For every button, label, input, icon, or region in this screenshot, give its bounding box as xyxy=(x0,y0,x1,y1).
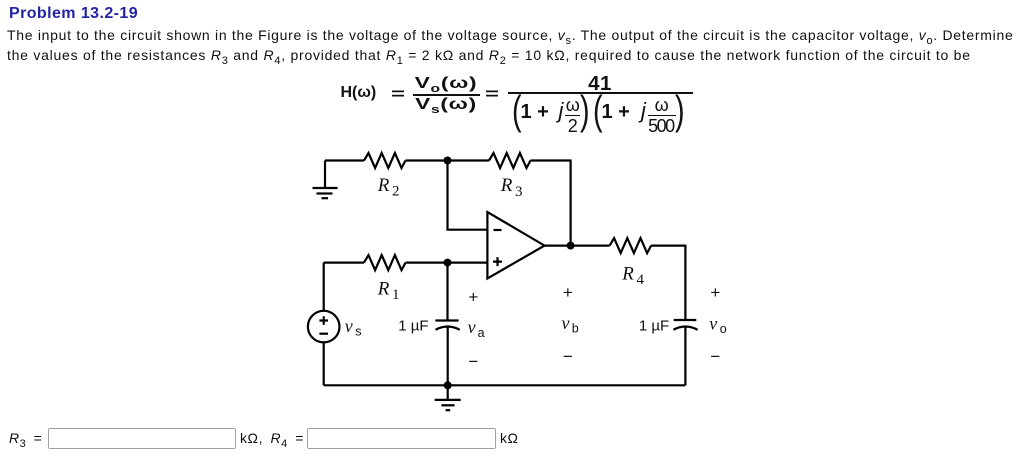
svg-text:−: − xyxy=(563,347,573,366)
vo minus xyxy=(710,347,720,366)
svg-text:R: R xyxy=(377,278,390,299)
svg-text:s: s xyxy=(355,325,361,339)
svg-text:1: 1 xyxy=(392,287,400,303)
wire vs to R1 xyxy=(324,262,364,264)
svg-text:1 µF: 1 µF xyxy=(398,317,428,334)
voltage source vs xyxy=(308,311,340,343)
C2 value label xyxy=(639,317,669,334)
svg-text:v: v xyxy=(468,317,476,337)
vb label xyxy=(562,313,579,336)
svg-text:1 µF: 1 µF xyxy=(639,317,669,334)
svg-text:+: + xyxy=(563,283,573,302)
op-amp minus sign xyxy=(494,229,502,231)
vs label xyxy=(345,316,362,339)
wire R3 to corner xyxy=(531,159,571,161)
heading xyxy=(9,6,138,22)
node A (junction dot) xyxy=(444,157,452,165)
vo plus xyxy=(710,283,720,302)
wire R2 to R3 xyxy=(406,159,490,161)
op-amp U1 xyxy=(487,212,544,279)
vb plus xyxy=(563,283,573,302)
vo label xyxy=(709,313,727,336)
capacitor C1 (1 uF, va) xyxy=(435,319,458,321)
wire capacitor to rail xyxy=(447,327,449,386)
svg-text:o: o xyxy=(720,322,727,336)
equation H(w) = Vo/Vs = 41/((1+jw/2)(1+jw/500)) xyxy=(0,0,1024,1)
svg-text:−: − xyxy=(710,347,720,366)
wire down to capacitor C2 xyxy=(684,245,686,320)
bottom rail wire xyxy=(324,384,686,386)
wire noninverting input xyxy=(448,262,488,264)
svg-text:4: 4 xyxy=(637,272,645,288)
wire R1 to node B xyxy=(406,262,448,264)
C1 value label xyxy=(398,317,428,334)
svg-text:b: b xyxy=(572,322,579,336)
node C (junction dot) xyxy=(444,381,452,389)
resistor R3 xyxy=(489,153,531,168)
svg-text:3: 3 xyxy=(515,184,523,200)
wire corner down to op-amp output xyxy=(569,160,571,246)
fraction Vo(w)/Vs(w) xyxy=(396,76,495,92)
answer box R4 xyxy=(307,428,496,450)
node D (junction dot) xyxy=(567,242,575,250)
node B (junction dot) xyxy=(444,259,452,267)
resistor R2 xyxy=(364,153,406,168)
svg-text:v: v xyxy=(562,313,570,333)
wire node A down to inverting input xyxy=(448,161,488,230)
ground (top-left) xyxy=(313,161,338,199)
answer box R3 xyxy=(48,428,236,450)
svg-text:v: v xyxy=(345,316,353,336)
svg-text:R: R xyxy=(500,175,513,196)
wire capacitor C2 to rail xyxy=(684,327,686,386)
svg-text:R: R xyxy=(621,263,634,284)
R2 label xyxy=(377,175,400,200)
R4 label xyxy=(621,263,644,288)
svg-text:−: − xyxy=(468,352,478,371)
ground (bottom) xyxy=(435,385,461,410)
answer row xyxy=(9,430,42,446)
wire source to bottom rail xyxy=(323,342,325,385)
capacitor C2 (1 uF, vo) xyxy=(674,319,697,321)
den2 pieces xyxy=(512,90,522,131)
va label xyxy=(468,317,485,340)
resistor R4 xyxy=(610,238,652,253)
vb minus xyxy=(563,347,573,366)
svg-text:+: + xyxy=(468,288,478,307)
svg-text:v: v xyxy=(709,313,717,333)
op-amp plus sign xyxy=(493,257,502,266)
R3 label xyxy=(500,175,523,200)
svg-text:a: a xyxy=(478,326,485,340)
R1 label xyxy=(377,278,400,303)
paragraph xyxy=(7,25,1013,66)
wire ground to R2 xyxy=(325,159,364,161)
svg-text:+: + xyxy=(710,283,720,302)
svg-text:R: R xyxy=(377,175,390,196)
svg-text:2: 2 xyxy=(392,184,400,200)
fraction 41 / (1+jw/2)(1+jw/500) xyxy=(508,74,692,95)
resistor R1 xyxy=(364,255,406,270)
va plus xyxy=(468,288,478,307)
wire op-amp output to R4 xyxy=(545,245,610,247)
va minus xyxy=(468,352,478,371)
wire down to source xyxy=(323,263,325,311)
wire R4 to right corner xyxy=(651,245,685,247)
wire node B down to capacitor xyxy=(446,263,448,320)
